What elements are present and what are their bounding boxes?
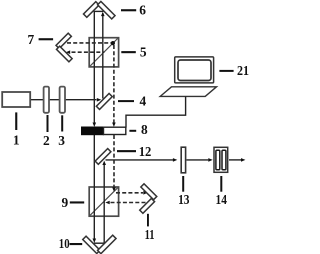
svg-text:10: 10 [59,236,70,251]
wire horizontal beam mirror 12 to filter 13 [106,159,174,161]
wire computer 21 to sample 8 [126,96,186,127]
retroreflector 11 upper wing [141,184,157,200]
mirror 6 left wing [83,2,99,18]
label 21 [219,63,249,78]
dashed beam retroreflector 7 lower to cube 5 [72,51,105,53]
retroreflector 7 lower wing [56,46,72,62]
label 3 tick [61,115,63,131]
svg-text:9: 9 [62,195,69,210]
wire vertical right upper: mirror 6 down to mirror 4 [102,13,104,99]
retroreflector 11 lower wing [140,198,155,213]
svg-text:7: 7 [28,32,35,47]
svg-text:12: 12 [139,144,152,159]
arrowhead down at mirror 10 [93,239,97,243]
wire output from detector 14 [229,159,241,161]
filter 13 [181,147,185,173]
wire laser 1 to lens 2,3 beam [30,99,97,101]
laser source 1 [2,92,30,107]
arrowhead up at mirror 6 [101,12,105,16]
dashed beam cube 9 to retroreflector 11 upper [116,192,143,194]
detector 14 right bar [222,150,226,170]
computer 21 screen inner [178,60,211,81]
mirror 4 [96,93,112,109]
svg-text:14: 14 [216,192,228,207]
wire filter 13 to detector 14 [187,159,209,161]
label 2 tick [47,115,49,132]
label 5 [121,44,147,59]
dashed beam cube 5 down to sample 8 [113,45,115,123]
arrowhead into mirror 4 [97,98,101,102]
arrowhead down onto sample 8 [93,123,97,127]
mirror 10 left wing [83,236,100,253]
node dot in cube 5 [111,41,115,45]
beam splitter cube 5 [89,38,118,67]
dashed beam sample 8 down to cube 9 [113,135,115,187]
svg-text:4: 4 [139,93,146,108]
label 11 tick [147,214,149,227]
label 6 [121,2,146,17]
lens 2 [44,87,49,113]
svg-text:11: 11 [145,227,155,242]
lens 3 [60,87,65,113]
arrowhead into detector 14 [208,158,212,162]
computer 21 screen outer [175,57,214,83]
retroreflector 7 upper wing [56,33,71,48]
dashed beam retroreflector 11 lower back to cube 9 [111,202,147,204]
svg-text:2: 2 [43,133,50,148]
svg-text:5: 5 [140,44,147,59]
mirror 6 right wing [98,1,115,18]
label 10 [59,236,82,251]
svg-text:8: 8 [141,122,148,137]
mirror 10 right wing [98,235,116,253]
arrowhead down onto sample 8 white part [112,123,116,127]
wire bottom connector at mirror 10 [94,242,105,244]
sample 8 black part [82,127,104,135]
wire vertical left lower: sample 8 down to mirror 10 [93,135,95,239]
arrowhead left at retroreflector 7 [66,50,70,54]
svg-text:1: 1 [13,132,20,147]
detector 14 outer [214,147,228,172]
detector 14 left bar [216,150,220,170]
arrowhead down at cube 9 diagonal [112,187,116,191]
arrowhead right at retroreflector 11 [143,191,147,195]
arrowhead left at cube 9 diagonal [105,201,109,205]
dashed beam cube 5 to retroreflector 7 upper [67,42,113,44]
label 9 [62,195,85,210]
svg-text:21: 21 [237,63,249,78]
wire top connector at mirror 6 [94,10,104,12]
arrowhead up under mirror 12 [102,161,106,165]
label 14 tick [220,176,222,192]
label 4 [118,93,146,108]
svg-text:3: 3 [58,133,65,148]
arrowhead output right [241,158,245,162]
sample 8 white part [104,127,126,134]
label 7 [28,32,54,47]
svg-text:13: 13 [178,192,190,207]
wire vertical right lower: mirror 12 down to mirror 10 [103,165,105,244]
label 12 [117,144,152,159]
computer 21 keyboard base [160,87,216,97]
arrowhead into filter 13 [173,158,177,162]
label 13 tick [182,176,184,192]
label 8 [129,122,148,137]
beam splitter cube 9 [89,187,118,216]
label 1 tick [15,112,17,130]
mirror 12 [95,149,111,165]
svg-text:6: 6 [139,2,146,17]
wire vertical left upper: cube5/mirror6 down to sample 8 [93,11,95,123]
